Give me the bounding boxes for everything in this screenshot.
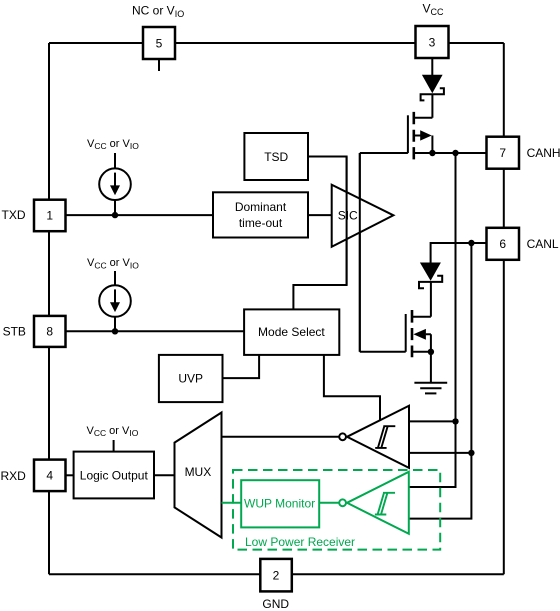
- svg-text:4: 4: [46, 469, 53, 483]
- svg-text:7: 7: [499, 146, 506, 160]
- svg-text:3: 3: [429, 35, 436, 49]
- svg-text:WUP Monitor: WUP Monitor: [244, 497, 315, 511]
- svg-text:UVP: UVP: [178, 372, 203, 386]
- svg-text:STB: STB: [3, 324, 26, 338]
- svg-text:6: 6: [499, 237, 506, 251]
- svg-text:Mode Select: Mode Select: [258, 325, 325, 339]
- svg-text:GND: GND: [262, 597, 289, 611]
- svg-text:Dominant: Dominant: [235, 200, 287, 214]
- svg-text:2: 2: [273, 568, 280, 582]
- svg-text:time-out: time-out: [239, 216, 283, 230]
- svg-text:SIC: SIC: [338, 209, 358, 223]
- svg-text:RXD: RXD: [1, 469, 27, 483]
- svg-text:5: 5: [156, 36, 163, 50]
- svg-text:Low Power Receiver: Low Power Receiver: [245, 535, 355, 549]
- svg-text:Logic Output: Logic Output: [80, 468, 149, 482]
- svg-text:MUX: MUX: [185, 465, 212, 479]
- svg-text:TXD: TXD: [2, 208, 26, 222]
- svg-text:CANH: CANH: [527, 146, 560, 160]
- svg-text:TSD: TSD: [264, 150, 288, 164]
- svg-text:1: 1: [46, 209, 53, 223]
- svg-text:8: 8: [46, 325, 53, 339]
- svg-text:CANL: CANL: [527, 237, 559, 251]
